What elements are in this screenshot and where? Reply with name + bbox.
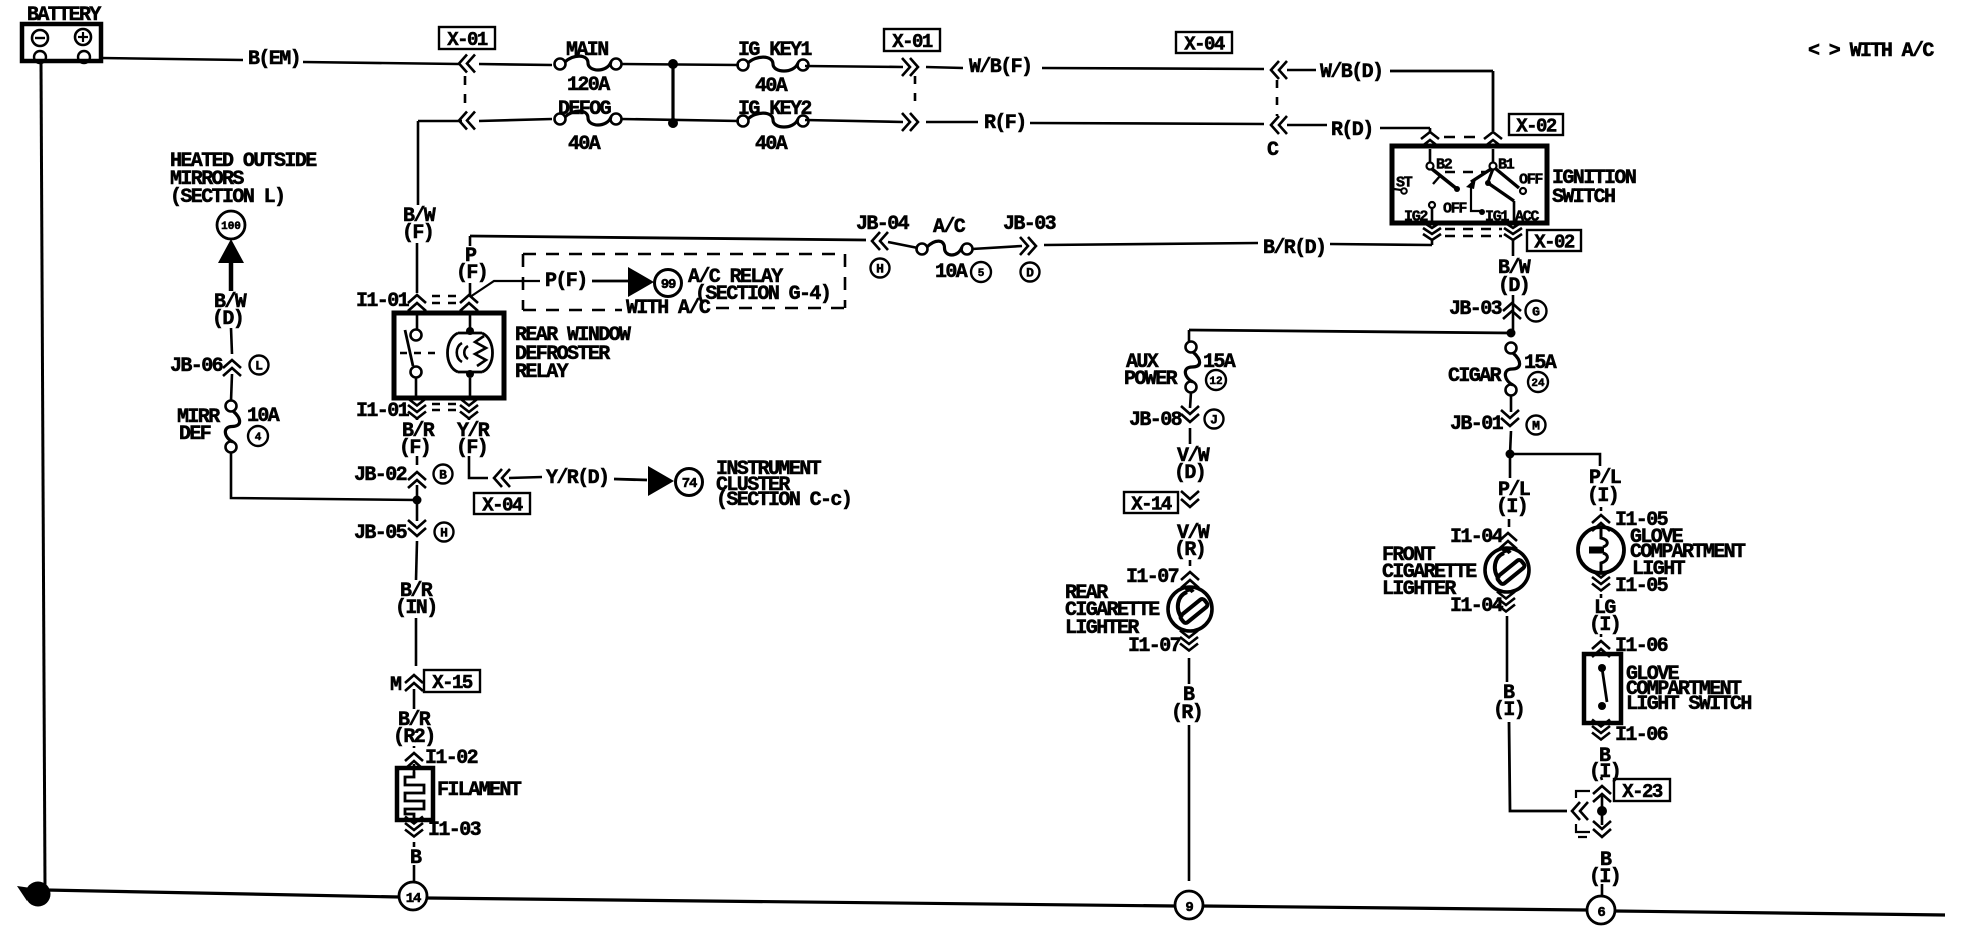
svg-text:(I): (I): [1496, 496, 1527, 519]
svg-text:(F): (F): [456, 437, 487, 460]
svg-text:IG KEY1: IG KEY1: [738, 39, 812, 62]
svg-text:(R): (R): [1174, 539, 1205, 562]
svg-text:JB-02: JB-02: [354, 464, 407, 487]
svg-text:X-23: X-23: [1622, 781, 1663, 803]
svg-text:X-01: X-01: [892, 31, 933, 53]
svg-text:40A: 40A: [755, 75, 788, 98]
svg-text:74: 74: [682, 476, 697, 492]
svg-text:I1-01: I1-01: [356, 290, 410, 313]
svg-text:M: M: [1532, 419, 1540, 434]
svg-text:B(EM): B(EM): [248, 48, 300, 71]
svg-text:(D): (D): [1174, 462, 1205, 485]
svg-text:R(F): R(F): [984, 112, 1026, 135]
svg-text:(I): (I): [1587, 485, 1618, 508]
svg-text:(SECTION G-4): (SECTION G-4): [695, 283, 830, 306]
svg-text:RELAY: RELAY: [515, 361, 569, 384]
svg-text:W/B(F): W/B(F): [969, 56, 1031, 79]
svg-text:< > WITH A/C: < > WITH A/C: [1808, 40, 1934, 63]
svg-text:(F): (F): [456, 262, 487, 285]
svg-text:X-01: X-01: [447, 29, 488, 51]
svg-text:JB-03: JB-03: [1003, 213, 1056, 236]
svg-text:R(D): R(D): [1331, 119, 1373, 142]
svg-text:9: 9: [1185, 900, 1193, 916]
svg-text:POWER: POWER: [1124, 368, 1178, 391]
svg-text:H: H: [876, 262, 884, 277]
svg-text:5: 5: [978, 268, 985, 280]
svg-text:I1-04: I1-04: [1450, 595, 1504, 618]
svg-text:12: 12: [1209, 376, 1222, 388]
svg-text:(D): (D): [1498, 275, 1529, 298]
svg-text:X-14: X-14: [1131, 493, 1172, 515]
svg-text:24: 24: [1531, 378, 1545, 390]
svg-text:I1-06: I1-06: [1615, 724, 1668, 747]
svg-text:M: M: [390, 674, 402, 697]
svg-text:40A: 40A: [755, 133, 788, 156]
svg-text:B: B: [410, 847, 422, 870]
svg-text:JB-06: JB-06: [170, 355, 223, 378]
svg-text:X-04: X-04: [482, 494, 523, 516]
svg-text:X-02: X-02: [1516, 115, 1557, 137]
svg-text:10A: 10A: [247, 405, 280, 428]
svg-text:G: G: [33, 887, 43, 905]
svg-text:(SECTION L): (SECTION L): [170, 186, 284, 209]
svg-text:(R2): (R2): [393, 726, 435, 749]
svg-text:99: 99: [661, 277, 676, 293]
svg-text:JB-04: JB-04: [856, 213, 910, 236]
svg-text:OFF: OFF: [1519, 171, 1543, 188]
svg-text:X-02: X-02: [1534, 231, 1575, 253]
svg-text:6: 6: [1597, 905, 1605, 921]
svg-text:G: G: [1532, 305, 1540, 320]
svg-text:JB-05: JB-05: [354, 522, 407, 545]
svg-text:L: L: [255, 359, 263, 374]
svg-text:(I): (I): [1493, 699, 1524, 722]
svg-text:(SECTION C-c): (SECTION C-c): [716, 489, 851, 512]
svg-text:X-04: X-04: [1184, 33, 1225, 55]
svg-text:OFF: OFF: [1443, 200, 1467, 217]
svg-text:DEF: DEF: [179, 423, 211, 446]
svg-text:I1-07: I1-07: [1126, 566, 1179, 589]
svg-text:(R): (R): [1171, 702, 1202, 725]
svg-text:LIGHT SWITCH: LIGHT SWITCH: [1626, 693, 1751, 716]
svg-text:40A: 40A: [568, 133, 601, 156]
svg-text:LIGHT: LIGHT: [1632, 558, 1686, 581]
svg-text:100: 100: [221, 221, 241, 233]
svg-text:(I): (I): [1589, 761, 1620, 784]
svg-text:14: 14: [406, 891, 421, 907]
svg-text:(D): (D): [212, 308, 243, 331]
svg-text:P(F): P(F): [545, 270, 587, 293]
svg-text:A/C: A/C: [933, 216, 966, 239]
svg-text:4: 4: [255, 432, 262, 444]
svg-text:(I): (I): [1589, 866, 1620, 889]
svg-text:(I): (I): [1589, 614, 1620, 637]
svg-text:JB-01: JB-01: [1450, 413, 1504, 436]
svg-text:(F): (F): [402, 222, 433, 245]
svg-text:(IN): (IN): [395, 597, 437, 620]
svg-text:Y/R(D): Y/R(D): [546, 467, 608, 490]
svg-text:D: D: [1026, 266, 1034, 281]
svg-text:120A: 120A: [567, 74, 610, 97]
svg-text:J: J: [1210, 413, 1218, 428]
svg-text:LIGHTER: LIGHTER: [1382, 578, 1456, 601]
svg-text:10A: 10A: [935, 261, 968, 284]
svg-text:H: H: [440, 526, 448, 541]
svg-text:JB-03: JB-03: [1449, 298, 1502, 321]
svg-text:SWITCH: SWITCH: [1552, 186, 1615, 209]
svg-text:JB-08: JB-08: [1129, 409, 1182, 432]
svg-text:I1-04: I1-04: [1450, 526, 1504, 549]
svg-text:B: B: [439, 468, 447, 483]
svg-text:CIGAR: CIGAR: [1448, 365, 1502, 388]
svg-text:W/B(D): W/B(D): [1320, 61, 1382, 84]
svg-text:B/R(D): B/R(D): [1263, 237, 1325, 260]
svg-text:FILAMENT: FILAMENT: [437, 779, 522, 802]
svg-text:I1-03: I1-03: [428, 819, 481, 842]
svg-text:X-15: X-15: [432, 672, 473, 694]
svg-text:LIGHTER: LIGHTER: [1065, 617, 1139, 640]
svg-text:(F): (F): [399, 437, 430, 460]
svg-text:C: C: [1267, 139, 1279, 162]
